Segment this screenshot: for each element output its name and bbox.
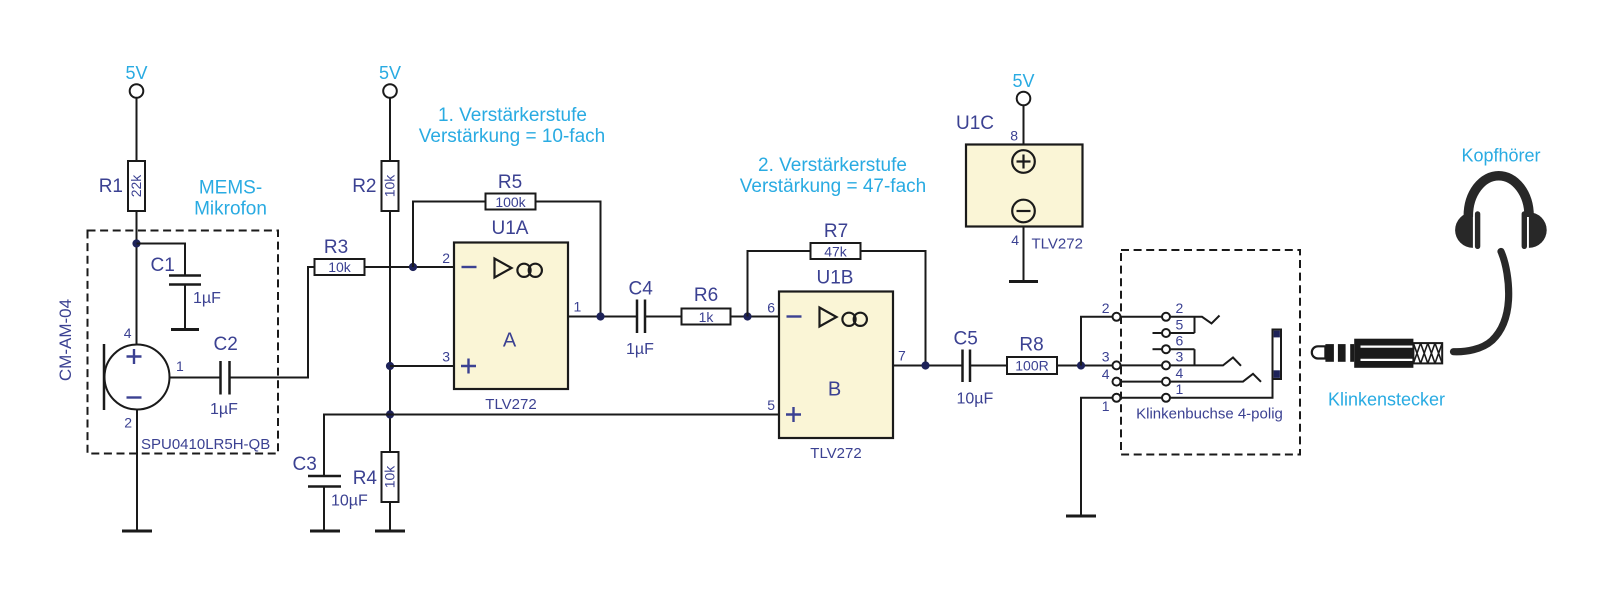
contact 4 switch wire xyxy=(1170,374,1261,382)
wire C5 to R8 xyxy=(970,365,1007,367)
svg-text:10k: 10k xyxy=(382,465,398,489)
link contact 2-5 xyxy=(1194,317,1196,333)
svg-text:R4: R4 xyxy=(353,468,378,489)
svg-text:5V: 5V xyxy=(125,63,147,83)
contact 3 switch wire xyxy=(1170,358,1241,366)
svg-text:B: B xyxy=(828,379,841,401)
svg-text:5V: 5V xyxy=(379,63,401,83)
jack pin 2 (outer) xyxy=(1113,313,1121,321)
wire U1B output xyxy=(893,365,963,367)
node R1/C1 junction xyxy=(132,239,140,247)
svg-text:10k: 10k xyxy=(382,174,398,198)
svg-text:2. Verstärkerstufe: 2. Verstärkerstufe xyxy=(758,155,907,176)
jack contact 5 xyxy=(1153,332,1163,334)
svg-text:Verstärkung = 10-fach: Verstärkung = 10-fach xyxy=(419,126,605,147)
svg-text:22k: 22k xyxy=(128,174,144,198)
svg-text:3: 3 xyxy=(442,349,450,365)
svg-text:Klinkenbuchse 4-polig: Klinkenbuchse 4-polig xyxy=(1136,406,1283,423)
node R6/R7 junction xyxy=(743,312,751,320)
jack plug blade symbol xyxy=(1273,330,1282,380)
wire pin3 to contact 3 xyxy=(1121,364,1163,366)
capacitor C5 10uF xyxy=(961,350,964,383)
wire 5V to R2 xyxy=(389,98,391,161)
svg-text:1: 1 xyxy=(574,299,582,315)
svg-text:47k: 47k xyxy=(824,243,848,259)
wire 5V to R1 xyxy=(136,98,138,161)
svg-text:R8: R8 xyxy=(1019,335,1043,356)
svg-text:100k: 100k xyxy=(495,194,526,210)
jack contact 3 xyxy=(1162,361,1170,369)
svg-text:100R: 100R xyxy=(1015,358,1048,374)
svg-text:4: 4 xyxy=(1176,365,1184,381)
jack contact 6 xyxy=(1153,348,1163,350)
svg-text:2: 2 xyxy=(1102,300,1110,316)
svg-text:U1C: U1C xyxy=(956,113,994,134)
jack contact 1 xyxy=(1162,394,1170,402)
svg-text:2: 2 xyxy=(124,415,132,431)
wire C4 to R6 xyxy=(645,316,682,318)
svg-text:Klinkenstecker: Klinkenstecker xyxy=(1328,390,1445,410)
wire R4 to ground xyxy=(389,502,391,531)
svg-text:R2: R2 xyxy=(352,176,376,197)
wire R3 to U1A pin 2 xyxy=(365,266,455,268)
svg-text:Mikrofon: Mikrofon xyxy=(194,199,267,220)
jack contact 2 xyxy=(1162,313,1170,321)
svg-text:R6: R6 xyxy=(694,285,718,306)
capacitor C1 1uF xyxy=(169,274,201,277)
wire C3 to ground xyxy=(323,487,325,531)
node U1B out/R7 junction xyxy=(921,361,929,369)
svg-text:C1: C1 xyxy=(151,255,175,276)
wire mic pin 2 to ground xyxy=(136,410,138,531)
jack pin 1 (outer) xyxy=(1113,394,1121,402)
wire R8 to jack xyxy=(1057,365,1113,367)
svg-text:1µF: 1µF xyxy=(193,290,221,307)
svg-text:1µF: 1µF xyxy=(210,401,238,418)
wire mic pin 1 to C2 xyxy=(170,377,221,379)
svg-text:C2: C2 xyxy=(214,334,238,355)
microphone MK1 symbol xyxy=(105,345,170,410)
wire C2 to R3 xyxy=(230,267,315,378)
op-amp U1A xyxy=(454,243,568,390)
svg-text:R7: R7 xyxy=(824,221,848,242)
5V supply terminal (U1C) xyxy=(1017,92,1031,106)
node R2/pin3 junction xyxy=(386,362,394,370)
jack plug icon Klinkenstecker xyxy=(1312,339,1442,368)
contact 1 wire to sleeve xyxy=(1170,379,1273,398)
wire R6 to U1B pin 6 xyxy=(731,316,780,318)
svg-text:CM-AM-04: CM-AM-04 xyxy=(56,299,75,381)
wire pin3 xyxy=(390,365,454,367)
svg-text:7: 7 xyxy=(898,348,906,364)
resistor R5 100k feedback xyxy=(413,202,486,268)
svg-text:TLV272: TLV272 xyxy=(1032,236,1083,253)
5V supply terminal (R2 rail) xyxy=(383,84,397,98)
resistor R4 10k xyxy=(382,452,399,502)
svg-text:1k: 1k xyxy=(699,309,715,325)
svg-text:U1A: U1A xyxy=(492,218,529,239)
svg-text:3: 3 xyxy=(1176,349,1184,365)
svg-text:5V: 5V xyxy=(1012,71,1034,91)
MEMS microphone module dashed box CM-AM-04 xyxy=(88,231,279,454)
svg-text:R3: R3 xyxy=(324,237,348,258)
wire jack pin 2 drop xyxy=(1081,317,1113,366)
wire R2 down rail xyxy=(389,211,391,452)
svg-text:3: 3 xyxy=(1102,349,1110,365)
svg-text:Verstärkung = 47-fach: Verstärkung = 47-fach xyxy=(740,176,926,197)
svg-text:C3: C3 xyxy=(293,454,317,475)
capacitor C3 10uF xyxy=(308,475,341,478)
headphone right ear cup xyxy=(1522,211,1527,249)
svg-text:1µF: 1µF xyxy=(626,341,654,358)
svg-text:R5: R5 xyxy=(498,172,522,193)
svg-text:6: 6 xyxy=(1176,333,1184,349)
svg-text:1. Verstärkerstufe: 1. Verstärkerstufe xyxy=(438,105,587,126)
op-amp U1B xyxy=(779,292,893,439)
svg-text:2: 2 xyxy=(1176,300,1184,316)
svg-text:5: 5 xyxy=(767,397,775,413)
node R5/pin2 junction xyxy=(409,263,417,271)
svg-text:8: 8 xyxy=(1010,128,1018,144)
capacitor C2 1uF xyxy=(219,361,222,395)
ground (U1C) xyxy=(1009,280,1038,283)
svg-text:MEMS-: MEMS- xyxy=(199,178,262,199)
wire pin4 to contact 4 xyxy=(1121,381,1163,383)
ground (R4) xyxy=(375,530,405,533)
ground (microphone) xyxy=(122,530,152,533)
jack contact 4 xyxy=(1162,378,1170,386)
op-amp power block U1C xyxy=(966,145,1083,227)
node U1A out/R5 junction xyxy=(596,312,604,320)
ground (jack) xyxy=(1066,515,1096,518)
svg-text:10µF: 10µF xyxy=(331,493,368,510)
svg-text:TLV272: TLV272 xyxy=(810,445,861,462)
svg-text:U1B: U1B xyxy=(817,268,854,289)
svg-text:10µF: 10µF xyxy=(957,391,994,408)
headphone headband xyxy=(1468,176,1529,217)
5V supply terminal (R1 rail) xyxy=(130,84,144,98)
wire pin5 rail to U1B xyxy=(390,414,779,416)
svg-text:1: 1 xyxy=(1176,381,1184,397)
wire jack pin 1 to ground xyxy=(1081,398,1113,515)
ground (C1) xyxy=(171,328,199,331)
resistor R3 10k xyxy=(315,259,365,275)
svg-text:4: 4 xyxy=(1102,366,1110,382)
svg-text:C4: C4 xyxy=(629,279,654,300)
svg-text:SPU0410LR5H-QB: SPU0410LR5H-QB xyxy=(141,436,270,453)
wire C1 to ground xyxy=(184,285,186,329)
resistor R2 10k xyxy=(382,161,399,211)
headphone cable xyxy=(1454,252,1509,352)
resistor R1 22k xyxy=(128,161,145,211)
svg-text:4: 4 xyxy=(1011,232,1019,248)
resistor R6 1k xyxy=(682,309,731,325)
svg-text:Kopfhörer: Kopfhörer xyxy=(1461,146,1540,166)
svg-text:2: 2 xyxy=(442,250,450,266)
headphone left ear cup xyxy=(1455,212,1473,248)
capacitor C4 1uF xyxy=(636,300,639,334)
resistor R7 47k feedback xyxy=(748,251,811,317)
svg-text:10k: 10k xyxy=(328,259,352,275)
wire junction to C3 xyxy=(324,415,390,477)
wire 5V to U1C pin 8 xyxy=(1023,106,1025,145)
node R8/jack junction xyxy=(1077,361,1085,369)
jack pin 4 (outer) xyxy=(1113,378,1121,386)
svg-text:R1: R1 xyxy=(99,176,123,197)
resistor R8 100R xyxy=(1007,357,1057,374)
contact 2 switch wire xyxy=(1170,316,1220,324)
svg-text:4: 4 xyxy=(124,325,132,341)
link contact 6-3 xyxy=(1194,349,1196,365)
svg-text:C5: C5 xyxy=(954,329,978,350)
svg-text:6: 6 xyxy=(767,300,775,316)
svg-text:A: A xyxy=(503,330,517,352)
jack socket dashed box Klinkenbuchse 4-polig xyxy=(1121,250,1300,455)
svg-text:TLV272: TLV272 xyxy=(485,396,536,413)
svg-text:5: 5 xyxy=(1176,317,1184,333)
svg-text:1: 1 xyxy=(176,358,184,374)
jack pin 3 (outer) xyxy=(1113,361,1121,369)
wire pin1 to contact 1 xyxy=(1121,397,1163,399)
node R2/C3/pin5 junction xyxy=(386,410,394,418)
wire U1C pin 4 to ground xyxy=(1023,227,1025,282)
svg-text:1: 1 xyxy=(1102,398,1110,414)
wire U1A output xyxy=(568,316,637,318)
wire pin2 to contact 2 xyxy=(1121,316,1163,318)
wire R1 to microphone pin 4 xyxy=(136,211,138,345)
ground (C3) xyxy=(310,530,340,533)
wire junction to C1 xyxy=(137,244,186,276)
